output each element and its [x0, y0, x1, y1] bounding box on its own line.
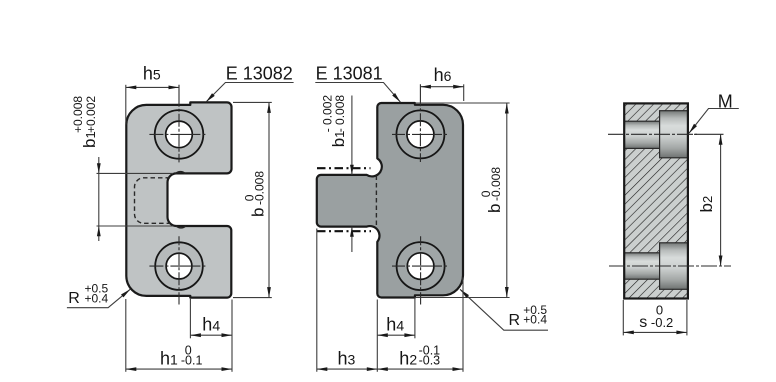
dimension b1 E13082 text: [71, 96, 99, 148]
svg-text:0: 0: [243, 194, 257, 201]
svg-text:E 13081: E 13081: [316, 64, 383, 84]
svg-text:R: R: [509, 312, 521, 329]
section plate border: [624, 103, 688, 298]
dimension h4 E13082 / h1 shared extension right: [231, 300, 233, 372]
dimension b E13082 text: [243, 171, 268, 217]
bore bottom hole E13082: [166, 253, 192, 279]
svg-text:h3: h3: [338, 349, 356, 369]
dimension b1 E13082 extension bottom: [97, 225, 174, 227]
insert head top section: [660, 111, 688, 158]
dimension h2 extension right: [462, 278, 464, 372]
svg-text:+0.008: +0.008: [71, 96, 85, 133]
section plate hatched: [624, 103, 688, 298]
dimension b1 E13082 line: [98, 157, 100, 241]
centerline bottom hole E13081 vertical: [420, 236, 422, 304]
dimension b1 E13082 arrow top: [97, 163, 101, 173]
mating contour dash-dot line below tab: [317, 230, 371, 232]
dimension b E13081 extension top: [415, 102, 510, 104]
dimension b E13081 text: [479, 167, 504, 213]
bore top hole E13082: [166, 121, 193, 148]
dimension h1 line: [126, 368, 232, 370]
dimension b E13082 extension bottom: [233, 297, 272, 299]
dimension s extension left: [622, 300, 624, 335]
label E 13081 leader: [315, 83, 400, 103]
insert stem bottom section: [624, 253, 659, 279]
svg-text:b: b: [485, 204, 504, 213]
dimension b1 E13081 arrow top: [350, 165, 354, 175]
dimension b1 E13081 arrow bottom: [350, 227, 354, 237]
dimension b1 E13081 text: [321, 95, 348, 148]
dimension h6 line: [420, 86, 463, 88]
dimension h4 E13081 extension right: [414, 297, 416, 338]
dimension h5 line: [126, 86, 179, 88]
centerline top hole E13081 horizontal: [392, 133, 449, 135]
svg-text:h6: h6: [434, 65, 452, 85]
centerline top hole E13081 vertical / h6 extension: [419, 84, 421, 162]
label M leader: [689, 109, 739, 134]
dimension h4 E13082 extension left: [189, 299, 191, 339]
svg-text:-0.2: -0.2: [651, 315, 673, 330]
insert head bottom section: [660, 243, 688, 289]
dimension h2 line: [377, 368, 463, 370]
svg-text:h4: h4: [202, 314, 220, 334]
svg-text:E 13082: E 13082: [226, 64, 293, 84]
svg-text:b: b: [249, 208, 268, 217]
centerline section bottom: [609, 265, 731, 267]
dimension b1 E13081 line upper: [351, 96, 353, 175]
dimension s line: [623, 331, 687, 333]
counterbore bottom hole E13081: [397, 242, 445, 290]
radius label R E13082 leader: [67, 289, 130, 308]
shared extension h3 h2 h4: [376, 300, 378, 372]
dimension b1 E13081 line lower: [351, 227, 353, 252]
svg-text:- 0.002: - 0.002: [321, 95, 335, 133]
dimension b E13081 line: [506, 103, 508, 298]
dimension b1 E13082 arrow bottom: [97, 226, 101, 236]
mating contour dash-dot line above tab: [317, 167, 371, 169]
dimension b E13081 extension bottom: [415, 297, 510, 299]
dimension s extension right: [686, 300, 688, 335]
svg-text:s: s: [639, 314, 647, 331]
counterbore bottom hole E13082: [155, 242, 203, 290]
bore top hole E13081: [407, 121, 434, 148]
dimension b E13082 extension top: [233, 101, 272, 103]
centerline bottom hole E13082 vertical: [178, 236, 180, 304]
svg-text:h4: h4: [386, 314, 404, 334]
centerline bottom hole E13082 horizontal: [149, 265, 207, 267]
centerline bottom hole E13081 horizontal: [392, 265, 449, 267]
hidden recess end arc bottom: [176, 226, 186, 228]
dimension b2 line: [720, 134, 722, 266]
svg-text:h2: h2: [399, 349, 417, 369]
dimension h3 line: [317, 368, 378, 370]
svg-text:- 0.008: - 0.008: [333, 95, 347, 133]
svg-text:+0.4: +0.4: [523, 313, 547, 327]
svg-text:+0.4: +0.4: [85, 291, 109, 305]
centerline section top: [608, 133, 697, 135]
hidden recess dashed contour in E13082: [135, 178, 171, 224]
dimension h5 extension left: [125, 85, 127, 125]
centerline top hole E13082 horizontal: [149, 133, 207, 135]
svg-text:h5: h5: [143, 64, 161, 84]
dimension h4 E13081 line: [377, 334, 415, 336]
dimension h4 E13082 line: [190, 334, 232, 336]
part body E13082 outline: [126, 102, 231, 297]
insert stem top section: [624, 121, 659, 148]
svg-text:R: R: [68, 290, 80, 307]
dimension h3 extension left: [316, 229, 318, 372]
bore bottom hole E13081: [407, 253, 434, 280]
svg-text:0: 0: [479, 190, 493, 197]
dimension h1 extension left: [125, 299, 127, 372]
hidden edge dashed E13081 tab root: [375, 176, 377, 227]
part body E13081 outline: [317, 103, 463, 298]
svg-text:-0.1: -0.1: [181, 354, 203, 368]
centerline top hole E13082 vertical / h5 extension: [178, 85, 180, 163]
radius label R E13081 leader: [460, 289, 548, 330]
dimension b2 text: [697, 196, 716, 213]
dimension b1 E13082 extension top: [97, 172, 174, 174]
counterbore top hole E13082: [155, 110, 204, 159]
svg-text:h1: h1: [160, 349, 178, 369]
hidden recess end arc top: [175, 172, 185, 174]
svg-text:+0.002: +0.002: [84, 96, 98, 133]
counterbore top hole E13081: [396, 110, 444, 158]
dimension h6 extension right: [463, 84, 465, 101]
dimension b E13082 line: [268, 102, 270, 297]
label E 13082 leader: [206, 83, 294, 103]
svg-text:-0.3: -0.3: [419, 354, 441, 368]
svg-text:b2: b2: [697, 196, 716, 213]
